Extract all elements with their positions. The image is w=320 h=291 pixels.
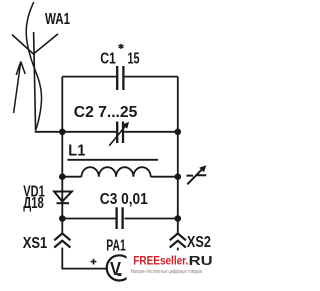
junction node L1 right: [175, 173, 182, 180]
svg-text:C1: C1: [100, 50, 116, 67]
svg-text:PA1: PA1: [106, 238, 126, 255]
wire right rail: [177, 77, 179, 234]
wire XS1 to voltmeter: [62, 248, 106, 269]
svg-text:C3 0,01: C3 0,01: [100, 191, 148, 208]
label asterisk C1: [119, 44, 124, 49]
wire L1 branch: [62, 176, 178, 178]
svg-text:Д18: Д18: [23, 195, 44, 212]
svg-text:XS2: XS2: [187, 234, 211, 251]
svg-text:XS1: XS1: [23, 235, 48, 252]
antenna WA1 V arms: [12, 34, 58, 54]
antenna WA1 curved wire: [26, 2, 41, 130]
junction node C2 left: [59, 129, 66, 136]
arrow of C2: [109, 125, 126, 146]
wire antenna to left rail: [36, 130, 63, 133]
junction node L1 left: [59, 173, 66, 180]
junction node C3 left: [59, 215, 66, 222]
wire C3 branch: [62, 218, 178, 220]
capacitor C3: [117, 207, 123, 229]
voltmeter DC dash: [117, 273, 121, 276]
svg-text:WA1: WA1: [45, 11, 70, 28]
junction node C2 right: [175, 129, 182, 136]
svg-text:RU: RU: [189, 253, 213, 268]
wire C2 branch: [62, 131, 178, 133]
junction node C3 right: [175, 215, 182, 222]
svg-text:V: V: [110, 259, 121, 279]
capacitor C1: [117, 66, 123, 90]
wire XS2 tail: [177, 248, 179, 251]
wire left rail: [61, 77, 63, 234]
svg-text:15: 15: [128, 50, 140, 67]
capacitor C2 variable: [117, 122, 123, 144]
socket XS1: [54, 233, 70, 247]
wire top (C1 branch): [62, 76, 178, 78]
svg-text:FREEseller.: FREEseller.: [133, 255, 188, 267]
inductor L1: [82, 167, 151, 177]
voltmeter PA1 circle: [107, 255, 132, 280]
core of L1: [67, 159, 158, 161]
antenna WA1 mast: [34, 32, 36, 131]
socket XS2: [170, 233, 186, 247]
svg-text:L1: L1: [68, 143, 85, 160]
svg-text:Магазин бесплатных цифровых то: Магазин бесплатных цифровых товаров: [131, 269, 202, 275]
diode VD1: [54, 192, 72, 202]
label plus: [91, 259, 97, 265]
arrow radiation direction: [14, 62, 26, 114]
svg-text:C2 7...25: C2 7...25: [74, 104, 138, 121]
watermark white box: [127, 251, 221, 291]
external antenna arrow right: [187, 168, 207, 184]
